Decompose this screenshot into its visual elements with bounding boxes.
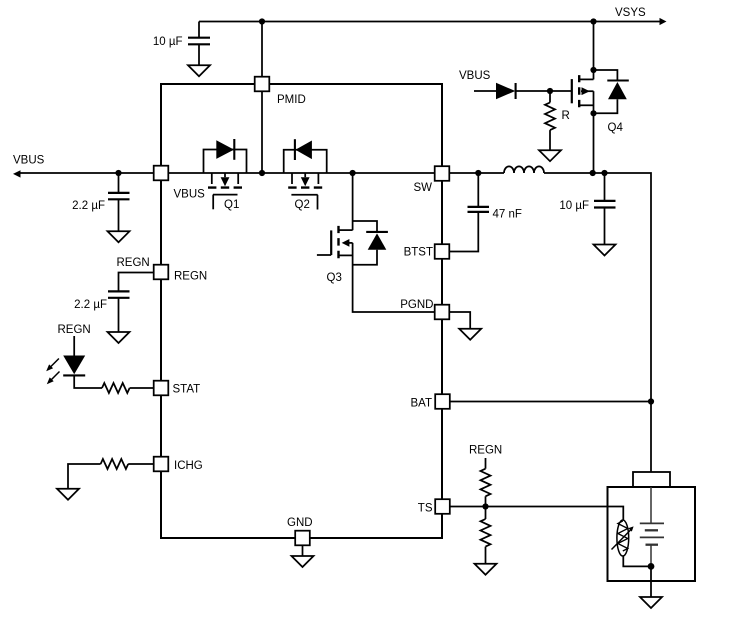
junction dot PMID at switch row	[259, 170, 265, 176]
resistor R2 (ICHG) zigzag	[101, 459, 129, 469]
wire LED cathode to resistor	[74, 376, 102, 388]
battery pack box	[608, 487, 696, 581]
pin REGN	[154, 265, 169, 280]
pin BAT	[435, 394, 450, 409]
Q4 body diode triangle	[608, 82, 627, 99]
resistor R1 (STAT) zigzag	[102, 383, 130, 393]
wire VSYS top rail	[199, 21, 660, 23]
Q1 body arrow	[221, 177, 230, 186]
wire R2 to ICHG pin	[128, 463, 154, 465]
capacitor C3 2.2uF plates	[108, 291, 130, 297]
Q4 body arrow shaft	[581, 90, 594, 92]
Q3 source stub	[339, 254, 353, 256]
capacitor C4 47nF lead	[477, 173, 479, 206]
svg-text:REGN: REGN	[469, 445, 502, 457]
wire Q4 source to output rail	[593, 113, 595, 173]
capacitor C5 10uF lead	[604, 173, 606, 200]
Q4 channel dashes	[578, 75, 580, 107]
svg-text:ICHG: ICHG	[174, 460, 203, 472]
LED D1 triangle	[63, 356, 85, 375]
svg-text:VBUS: VBUS	[174, 189, 206, 201]
junction dot C2 tap	[115, 170, 121, 176]
pin GND	[295, 531, 310, 546]
inductor L1	[504, 166, 544, 173]
wire C5 to ground	[604, 208, 606, 244]
Q3 body diode branch bottom	[353, 250, 377, 265]
Q1 body diode triangle	[216, 140, 234, 159]
wire SW pin to inductor	[450, 172, 505, 174]
Q3 body arrow	[342, 239, 350, 247]
wire PMID pin to top rail	[261, 22, 263, 78]
charger IC U1 outline	[161, 84, 442, 538]
Q4 body diode branch bottom	[594, 99, 618, 113]
Q3 body diode cathode bar	[366, 231, 388, 233]
junction dot C5 tap	[601, 170, 607, 176]
Q2 body arrow shaft	[304, 173, 306, 177]
Q1 gate lead bracket	[212, 195, 214, 210]
junction dot battery negative	[648, 563, 655, 570]
Q3 body diode branch top	[353, 221, 377, 232]
Q2 body diode cathode bar	[294, 139, 296, 160]
Q1 channel contact ticks	[208, 186, 242, 188]
ground (C2)	[108, 231, 130, 242]
svg-text:SW: SW	[413, 182, 432, 194]
thermistor RT arrow head	[628, 526, 633, 531]
junction dot BAT at output rail	[648, 398, 654, 404]
diode D2 triangle	[496, 83, 515, 99]
svg-text:GND: GND	[287, 517, 313, 529]
wire VBUS stub to diode	[474, 90, 496, 92]
Q4 body diode branch top	[594, 70, 618, 80]
transistor Q2 MOSFET terminals	[292, 173, 318, 184]
ground (R4)	[475, 564, 497, 575]
transistor Q1 body diode loop	[204, 150, 247, 174]
ground (GND pin)	[292, 556, 314, 567]
capacitor C1 10uF plates	[188, 38, 210, 45]
Q4 source stub	[579, 104, 593, 106]
pin STAT	[154, 381, 169, 396]
LED D1 cathode bar	[63, 374, 85, 376]
svg-text:Q3: Q3	[327, 272, 342, 284]
resistor R3 lead bottom	[485, 496, 487, 506]
wire VBUS input	[18, 172, 154, 174]
thermistor RT ellipse	[617, 520, 629, 556]
svg-text:VBUS: VBUS	[13, 155, 45, 167]
capacitor C1 10uF lead	[198, 22, 200, 38]
svg-text:REGN: REGN	[117, 257, 150, 269]
svg-text:PGND: PGND	[400, 299, 433, 311]
VSYS output arrow	[660, 18, 667, 25]
wire battery to ground	[650, 566, 652, 597]
Q1 body arrow shaft	[224, 173, 226, 177]
svg-text:10 µF: 10 µF	[153, 36, 183, 48]
Q3 channel dashes	[337, 226, 339, 258]
Q1 gate line	[213, 194, 238, 196]
pin ICHG	[154, 457, 169, 472]
transistor Q1 MOSFET terminals	[212, 173, 238, 184]
Q2 body arrow	[301, 177, 310, 186]
capacitor C2 2.2uF plates	[108, 193, 130, 199]
resistor R3 lead top	[485, 458, 487, 469]
wire REGN to LED anode	[73, 336, 75, 356]
wire C2 to ground	[118, 200, 120, 231]
Q2 gate line	[291, 194, 317, 196]
svg-text:Q2: Q2	[295, 199, 310, 211]
battery pack terminal block	[633, 472, 670, 487]
svg-text:2.2 µF: 2.2 µF	[74, 299, 107, 311]
Q3 gate lead	[317, 254, 331, 256]
resistor R4 lead bottom	[485, 547, 487, 564]
battery cell plate short 2	[646, 544, 659, 546]
svg-text:VBUS: VBUS	[459, 70, 491, 82]
svg-text:BAT: BAT	[410, 398, 432, 410]
ground (ICHG)	[57, 489, 79, 500]
junction dot Q4 drain at top rail	[590, 18, 596, 24]
resistor R4 zigzag	[481, 519, 491, 547]
wire PMID pin down to row	[261, 92, 263, 173]
wire TS to thermistor	[450, 507, 624, 521]
pin BTST	[435, 244, 450, 259]
Q3 body arrow shaft	[349, 242, 353, 244]
svg-text:STAT: STAT	[173, 384, 201, 396]
svg-text:10 µF: 10 µF	[559, 200, 589, 212]
wire GND pin to ground	[302, 545, 304, 556]
wire R to ground	[549, 130, 551, 150]
wire thermistor bottom to battery negative	[623, 556, 651, 567]
capacitor C5 10uF plates	[594, 201, 616, 208]
wire C3 to ground	[118, 299, 120, 333]
svg-text:R: R	[562, 110, 570, 122]
resistor R zigzag	[545, 103, 555, 131]
Q4 body arrow	[582, 87, 590, 95]
Q2 gate lead bracket	[317, 195, 319, 210]
thermistor RT arrow line	[612, 530, 632, 550]
svg-text:REGN: REGN	[174, 271, 207, 283]
wire C1 to ground	[198, 45, 200, 65]
junction dot Q3 drain	[350, 170, 356, 176]
resistor R4 lead top	[485, 507, 487, 520]
pin PMID	[255, 77, 270, 92]
thermistor RT zigzag	[618, 521, 628, 551]
Q4 gate plate	[571, 79, 573, 103]
Q2 channel contact ticks	[288, 186, 322, 188]
battery cell lead top	[650, 487, 652, 523]
VBUS input arrow	[13, 170, 21, 177]
Q4 body diode cathode bar	[607, 79, 629, 81]
junction dot R top	[547, 88, 553, 94]
transistor Q2 body diode loop	[284, 150, 327, 173]
svg-text:Q1: Q1	[224, 199, 239, 211]
switch-node row wire VBUS pin to SW pin	[169, 172, 435, 174]
wire REGN pin to C3	[119, 273, 154, 291]
junction dot PMID top rail	[259, 18, 265, 24]
junction dot Q4 drain node	[590, 67, 596, 73]
svg-text:PMID: PMID	[277, 94, 306, 106]
wire inductor to output node	[544, 173, 651, 472]
Q3 gate plate	[330, 230, 332, 255]
battery cell lead bottom	[650, 546, 652, 567]
Q2 body diode triangle	[295, 141, 312, 160]
ground (battery)	[640, 597, 662, 608]
wire D2 to Q4 gate	[516, 90, 572, 92]
wire Q4 body/source vertical	[593, 91, 595, 113]
ground (C1)	[188, 65, 210, 76]
svg-text:2.2 µF: 2.2 µF	[72, 200, 105, 212]
capacitor C4 47nF plates	[468, 207, 490, 212]
resistor R3 zigzag	[481, 469, 491, 497]
Q4 drain stub	[579, 78, 593, 80]
wire C4 to BTST pin	[450, 213, 479, 252]
svg-text:VSYS: VSYS	[615, 7, 646, 19]
diode D2 cathode bar	[515, 83, 517, 99]
svg-text:Q4: Q4	[608, 122, 624, 134]
pin SW	[435, 166, 450, 181]
pin VBUS	[154, 166, 169, 181]
pin TS	[435, 499, 450, 514]
pin PGND	[435, 305, 450, 320]
svg-text:REGN: REGN	[58, 324, 91, 336]
capacitor C2 lead	[118, 173, 120, 192]
wire Q4 drain from top rail	[593, 22, 595, 80]
battery cell plate short 1	[645, 529, 658, 531]
battery cell plate long 2	[640, 536, 664, 538]
junction dot Q4 source at output	[590, 170, 596, 176]
Q3 drain stub	[339, 229, 353, 231]
svg-text:BTST: BTST	[404, 247, 433, 259]
junction dot TS divider tap	[482, 503, 488, 509]
svg-text:47 nF: 47 nF	[493, 209, 522, 221]
svg-text:TS: TS	[418, 503, 433, 515]
junction dot Q4 source node	[590, 110, 596, 116]
wire PGND to ground	[450, 312, 471, 329]
wire BAT to battery	[450, 401, 651, 403]
wire ICHG ground stub	[68, 464, 101, 489]
wire Q3 drain vertical	[352, 173, 354, 230]
LED emission arrow 1	[49, 359, 59, 369]
wire Q3 source down to PGND row	[353, 243, 435, 312]
wire R1 to STAT pin	[130, 387, 154, 389]
ground (PGND)	[459, 329, 481, 340]
resistor R lead top	[549, 91, 551, 103]
battery cell plate long 1	[640, 522, 664, 524]
Q3 body diode triangle	[368, 233, 387, 249]
junction dot bootstrap cap tap	[475, 170, 481, 176]
ground (C3)	[108, 332, 130, 343]
ground (R)	[539, 150, 561, 161]
LED emission arrow 2	[50, 372, 60, 382]
Q1 body diode cathode bar	[233, 139, 235, 160]
ground (C5)	[594, 245, 616, 256]
